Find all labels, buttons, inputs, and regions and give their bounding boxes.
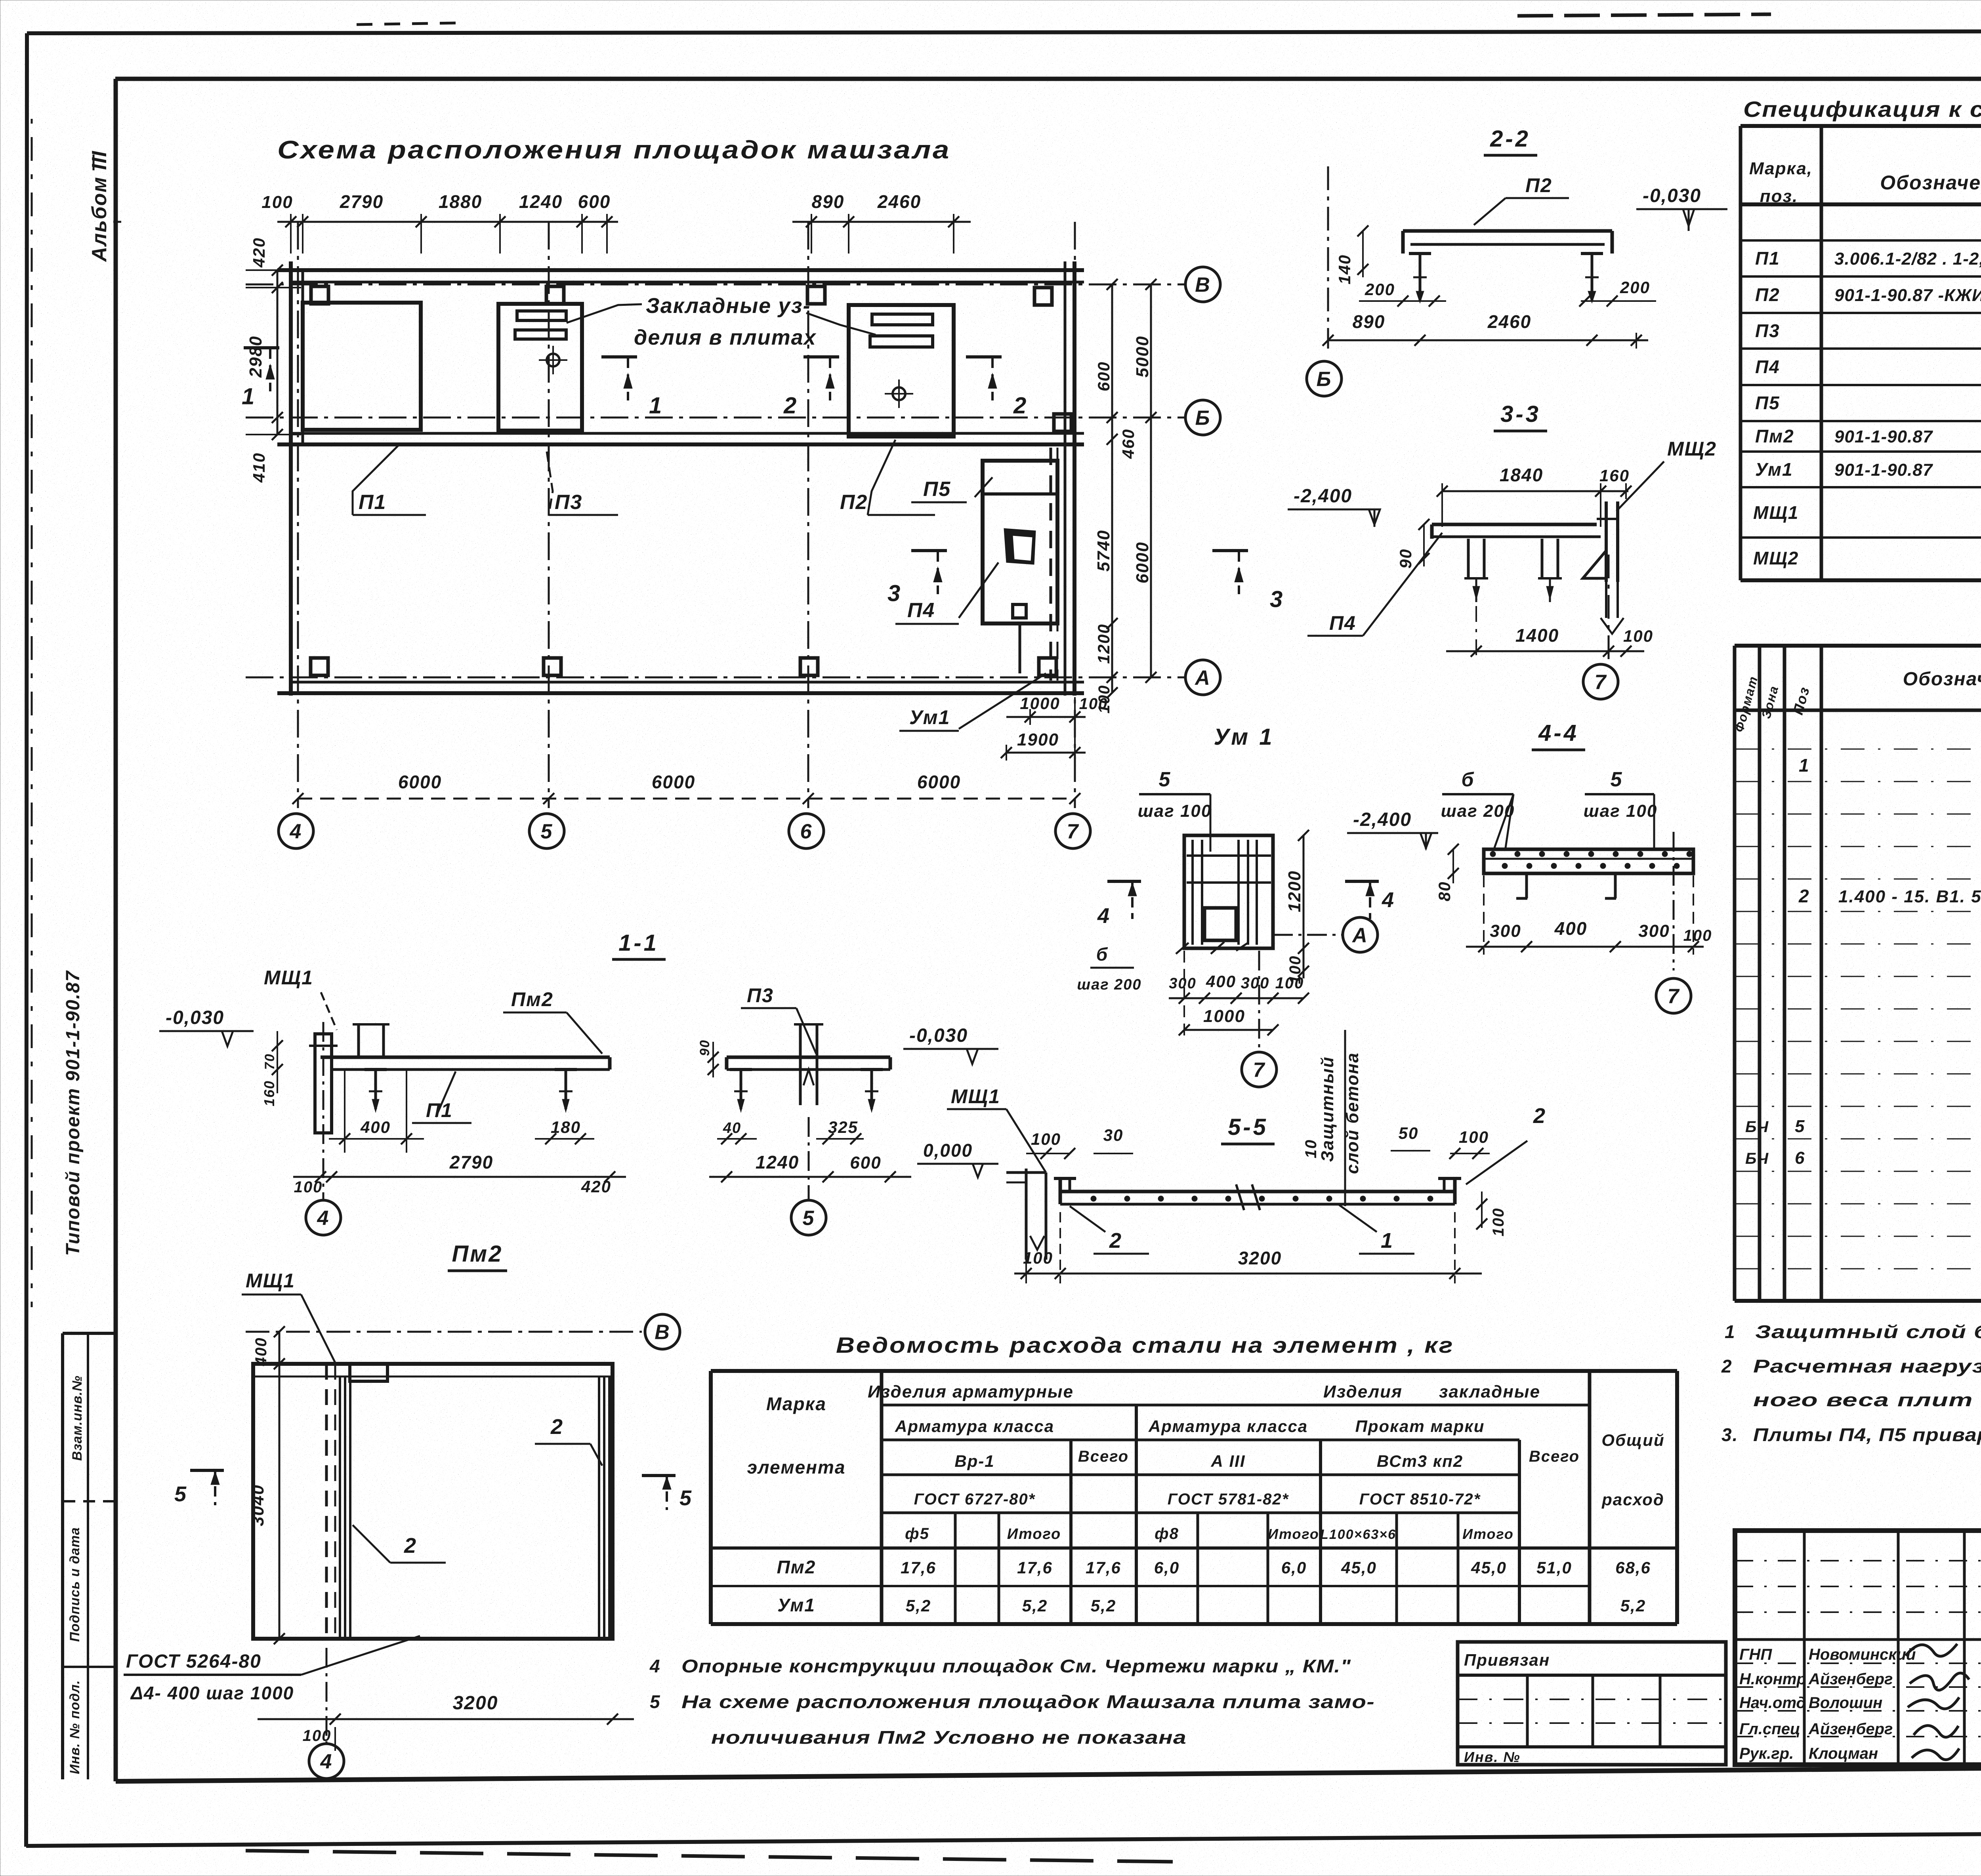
svg-text:901-1-90.87 -КЖИ-П20-3б: 901-1-90.87 -КЖИ-П20-3б xyxy=(1834,286,1981,305)
1-1 I-beams below xyxy=(365,1068,387,1071)
svg-text:5000: 5000 xyxy=(1133,336,1152,377)
svg-text:МЩ1: МЩ1 xyxy=(246,1270,295,1292)
svg-text:100: 100 xyxy=(261,193,293,212)
svg-text:5: 5 xyxy=(541,820,553,843)
Um1 right dims xyxy=(1303,835,1305,948)
svg-text:3: 3 xyxy=(887,581,901,606)
svg-text:1000: 1000 xyxy=(1020,694,1060,713)
Um1 section marks 4 xyxy=(1107,880,1141,883)
svg-text:1: 1 xyxy=(649,393,662,419)
margin stamp column box xyxy=(63,1332,116,1335)
materials table outline xyxy=(1735,644,1981,648)
svg-text:6,0: 6,0 xyxy=(1154,1558,1179,1577)
svg-text:6000: 6000 xyxy=(917,772,961,792)
svg-text:2: 2 xyxy=(404,1534,417,1558)
Um1 corner hatches xyxy=(1176,943,1189,954)
2-2 axis circle B xyxy=(1307,361,1342,396)
svg-text:шаг 100: шаг 100 xyxy=(1138,801,1212,821)
P2 embed slots xyxy=(872,314,933,325)
svg-text:90: 90 xyxy=(697,1039,712,1056)
svg-text:В: В xyxy=(655,1321,670,1344)
svg-text:П3: П3 xyxy=(1755,320,1780,341)
1-1b bottom dim xyxy=(709,1176,911,1178)
svg-text:600: 600 xyxy=(1094,361,1113,391)
svg-text:5: 5 xyxy=(1795,1117,1805,1136)
svg-text:Δ4- 400 шаг 1000: Δ4- 400 шаг 1000 xyxy=(130,1683,294,1703)
svg-text:шаг 200: шаг 200 xyxy=(1077,976,1141,993)
svg-text:90: 90 xyxy=(1396,549,1415,569)
svg-text:400: 400 xyxy=(1554,918,1588,939)
svg-text:делия в плитах: делия в плитах xyxy=(634,326,817,349)
svg-text:Айзенберг: Айзенберг xyxy=(1808,1720,1893,1738)
axis line V xyxy=(246,284,1185,286)
svg-text:П1: П1 xyxy=(1755,248,1780,269)
4-4 axis circle 7 xyxy=(1673,832,1675,970)
svg-text:Вр-1: Вр-1 xyxy=(954,1452,994,1470)
Um1 leader+label xyxy=(959,673,1046,729)
svg-text:Арматура класса: Арматура класса xyxy=(1148,1417,1308,1436)
Um1 rebars xyxy=(1191,840,1194,945)
svg-text:П5: П5 xyxy=(923,478,951,501)
Pm2 plate outline xyxy=(253,1364,613,1639)
P3 center mark xyxy=(547,354,559,366)
section flags 3 xyxy=(911,549,947,552)
svg-text:140: 140 xyxy=(1335,254,1354,284)
P4 small square xyxy=(1013,604,1026,618)
Um1 inner opening xyxy=(1204,908,1236,940)
3-3 top dims xyxy=(1442,490,1628,492)
svg-text:П1: П1 xyxy=(359,491,386,514)
svg-text:2460: 2460 xyxy=(1487,311,1531,332)
svg-text:50: 50 xyxy=(1399,1124,1419,1142)
1-1 P1 label xyxy=(436,1071,456,1117)
svg-text:460: 460 xyxy=(1119,429,1137,459)
svg-text:68,6: 68,6 xyxy=(1615,1558,1651,1577)
svg-text:17,6: 17,6 xyxy=(901,1558,936,1577)
svg-text:Ум1: Ум1 xyxy=(1755,459,1793,480)
svg-text:400: 400 xyxy=(252,1337,270,1367)
svg-text:П3: П3 xyxy=(747,984,774,1007)
svg-text:П4: П4 xyxy=(1755,357,1780,377)
4-4 studs xyxy=(1525,873,1528,898)
top dim line P1-P3 xyxy=(277,221,618,223)
svg-text:5: 5 xyxy=(650,1691,661,1712)
P3 leader+label xyxy=(547,452,553,515)
svg-text:100: 100 xyxy=(1459,1128,1489,1146)
svg-text:200: 200 xyxy=(1620,278,1650,297)
Pm2 left rebar band xyxy=(339,1376,341,1639)
P3 embed slots xyxy=(517,311,566,320)
svg-text:80: 80 xyxy=(1435,881,1454,902)
svg-text:ного веса плит - 20,0 кН/: ного веса плит - 20,0 кН/м² ( 2,0 тс/м²) xyxy=(1753,1390,1981,1410)
svg-text:2790: 2790 xyxy=(449,1152,493,1172)
Pm2 axis V line xyxy=(246,1331,642,1333)
1-1b plate xyxy=(727,1056,890,1059)
svg-text:1: 1 xyxy=(242,384,255,410)
materials table row separators xyxy=(1735,749,1981,750)
1-1 axis circle 4 xyxy=(323,1022,324,1200)
svg-text:5: 5 xyxy=(679,1486,692,1510)
2-2 P2 label xyxy=(1474,198,1506,225)
svg-text:420: 420 xyxy=(581,1177,611,1196)
svg-text:2: 2 xyxy=(1798,886,1810,906)
plate P2 xyxy=(849,305,954,437)
Um1 axis circle 7 xyxy=(1258,951,1260,1050)
svg-text:Гл.спец: Гл.спец xyxy=(1739,1720,1800,1738)
title block signature columns xyxy=(1803,1531,1806,1765)
svg-text:Марка,: Марка, xyxy=(1749,159,1813,178)
svg-text:4: 4 xyxy=(317,1207,330,1230)
svg-text:Защитный: Защитный xyxy=(1318,1056,1337,1162)
svg-text:П2: П2 xyxy=(1755,284,1780,305)
right dims of plan xyxy=(1111,284,1113,693)
svg-text:4: 4 xyxy=(649,1656,661,1676)
svg-text:1400: 1400 xyxy=(1515,625,1559,646)
svg-text:Взам.инв.№: Взам.инв.№ xyxy=(70,1375,85,1461)
4-4 left dim 80 xyxy=(1452,849,1454,883)
svg-text:17,6: 17,6 xyxy=(1017,1558,1053,1577)
svg-text:160: 160 xyxy=(1599,466,1630,485)
svg-text:4: 4 xyxy=(290,820,302,843)
5-5 rebar dots xyxy=(1091,1196,1096,1201)
svg-text:1240: 1240 xyxy=(756,1152,799,1172)
P4 opening xyxy=(1004,528,1036,564)
svg-text:2: 2 xyxy=(1109,1229,1122,1253)
5-5 right dim 100 xyxy=(1481,1192,1483,1228)
svg-text:закладные: закладные xyxy=(1439,1382,1540,1401)
svg-text:1: 1 xyxy=(1725,1321,1736,1342)
svg-text:45,0: 45,0 xyxy=(1471,1558,1507,1577)
svg-text:100: 100 xyxy=(1023,1249,1053,1267)
1-1b central column through plate xyxy=(799,1024,802,1105)
svg-text:1240: 1240 xyxy=(519,191,563,212)
svg-text:L100×63×6: L100×63×6 xyxy=(1320,1527,1396,1542)
svg-text:ГОСТ 5781-82*: ГОСТ 5781-82* xyxy=(1168,1491,1289,1508)
4-4 rebar dots xyxy=(1490,851,1496,857)
1-1 left dims 70/160 xyxy=(277,1031,278,1093)
svg-text:Пм2: Пм2 xyxy=(1755,426,1794,446)
svg-text:300: 300 xyxy=(1169,975,1196,992)
1-1 left column xyxy=(315,1034,332,1133)
svg-text:Итого: Итого xyxy=(1462,1526,1514,1542)
svg-text:4-4: 4-4 xyxy=(1538,720,1579,746)
svg-text:А III: А III xyxy=(1210,1452,1245,1470)
svg-text:300: 300 xyxy=(1241,974,1270,992)
svg-text:400: 400 xyxy=(360,1118,391,1136)
columns xyxy=(311,286,328,304)
1-1b I-beams below xyxy=(730,1068,752,1071)
svg-text:На схеме расположения пло: На схеме расположения площадок Машзала п… xyxy=(681,1691,1375,1712)
svg-text:-2,400: -2,400 xyxy=(1294,486,1352,507)
privyazan stamp table xyxy=(1458,1642,1726,1765)
embeds callout leaders xyxy=(567,304,642,323)
svg-text:Н.контр: Н.контр xyxy=(1739,1670,1806,1688)
svg-text:Новоминский: Новоминский xyxy=(1809,1646,1916,1663)
svg-text:Итого: Итого xyxy=(1007,1526,1061,1542)
svg-text:Клоцман: Клоцман xyxy=(1809,1745,1878,1762)
svg-text:Обозначение: Обозначение xyxy=(1903,669,1981,690)
svg-text:элемента: элемента xyxy=(747,1457,846,1478)
svg-text:400: 400 xyxy=(1206,972,1236,991)
svg-text:МЩ1: МЩ1 xyxy=(264,967,313,989)
svg-text:Типовой проект 901-1-90.87: Типовой проект 901-1-90.87 xyxy=(63,970,84,1256)
svg-text:Ведомость расхода стали: Ведомость расхода стали на элемент , кг xyxy=(836,1333,1454,1357)
svg-text:2-2: 2-2 xyxy=(1490,126,1531,152)
svg-text:Всего: Всего xyxy=(1078,1448,1129,1465)
svg-text:Ум1: Ум1 xyxy=(909,706,950,728)
svg-text:2: 2 xyxy=(1721,1356,1733,1376)
Pm2 left dims xyxy=(279,1332,281,1639)
section flags 2 xyxy=(803,355,839,358)
svg-text:10: 10 xyxy=(1302,1139,1320,1159)
svg-text:П5: П5 xyxy=(1755,393,1780,413)
svg-text:7: 7 xyxy=(1595,671,1607,694)
margin dash line xyxy=(31,119,33,1307)
svg-text:5: 5 xyxy=(1159,768,1171,791)
Um1 bottom dims xyxy=(1006,716,1086,718)
svg-text:Изделия арматурные: Изделия арматурные xyxy=(868,1382,1074,1401)
svg-text:6,0: 6,0 xyxy=(1281,1558,1307,1577)
svg-text:3.: 3. xyxy=(1721,1424,1738,1445)
steel table grid xyxy=(711,1369,1677,1373)
svg-text:6: 6 xyxy=(800,820,813,843)
svg-text:17,6: 17,6 xyxy=(1086,1558,1121,1577)
svg-text:Ум1: Ум1 xyxy=(777,1595,815,1615)
svg-text:3: 3 xyxy=(1270,587,1283,612)
svg-text:3.006.1-2/82 . 1-2,0-58: 3.006.1-2/82 . 1-2,0-58 xyxy=(1834,249,1981,269)
svg-text:200: 200 xyxy=(1365,280,1395,299)
svg-text:5,2: 5,2 xyxy=(1620,1596,1646,1615)
svg-text:Закладные уз-: Закладные уз- xyxy=(646,294,811,318)
svg-text:4: 4 xyxy=(1382,888,1395,912)
P2 center mark xyxy=(893,387,905,400)
svg-text:1.400 - 15. В1. 540 - 01: 1.400 - 15. В1. 540 - 01 xyxy=(1838,887,1981,906)
svg-text:Пм2: Пм2 xyxy=(452,1241,503,1267)
svg-text:Спецификация к схеме распо: Спецификация к схеме расположения площад… xyxy=(1743,97,1981,122)
svg-text:П4: П4 xyxy=(907,599,935,622)
plan building walls xyxy=(277,268,1084,272)
svg-text:45,0: 45,0 xyxy=(1341,1558,1377,1577)
axis circle V xyxy=(1185,267,1220,302)
svg-text:2: 2 xyxy=(550,1415,563,1439)
svg-text:расход: расход xyxy=(1601,1490,1664,1509)
svg-text:100: 100 xyxy=(1623,627,1653,645)
svg-text:890: 890 xyxy=(1353,311,1386,332)
svg-text:2460: 2460 xyxy=(877,191,921,212)
svg-text:ГНП: ГНП xyxy=(1739,1646,1772,1663)
P2 leader+label xyxy=(868,440,895,515)
svg-text:100: 100 xyxy=(1079,695,1108,713)
svg-text:ноличивания Пм2 Условно: ноличивания Пм2 Условно не показана xyxy=(711,1727,1187,1748)
svg-text:-0,030: -0,030 xyxy=(1643,185,1701,206)
svg-text:Альбом III: Альбом III xyxy=(88,151,111,263)
svg-text:поз.: поз. xyxy=(1760,187,1798,206)
1-1 stand above plate xyxy=(357,1024,360,1057)
svg-text:ГОСТ 8510-72*: ГОСТ 8510-72* xyxy=(1359,1491,1481,1508)
svg-text:100: 100 xyxy=(1683,927,1712,944)
svg-text:МЩ1: МЩ1 xyxy=(951,1085,1000,1108)
svg-text:Марка: Марка xyxy=(766,1394,826,1414)
svg-text:100: 100 xyxy=(1031,1130,1061,1148)
svg-text:1200: 1200 xyxy=(1094,623,1113,663)
Um1 bottom dims xyxy=(1169,997,1303,999)
svg-text:5,2: 5,2 xyxy=(1091,1596,1116,1615)
P4 stem line xyxy=(1019,623,1021,673)
bottom span dim line xyxy=(298,798,1075,800)
svg-text:51,0: 51,0 xyxy=(1536,1558,1572,1577)
svg-text:Инв. № подл.: Инв. № подл. xyxy=(67,1680,82,1774)
svg-text:МЩ2: МЩ2 xyxy=(1667,438,1717,460)
svg-text:Волошин: Волошин xyxy=(1809,1694,1882,1712)
svg-text:Итого: Итого xyxy=(1268,1526,1319,1542)
svg-text:Арматура класса: Арматура класса xyxy=(895,1417,1054,1436)
svg-text:шаг 100: шаг 100 xyxy=(1584,801,1658,821)
svg-text:ф8: ф8 xyxy=(1155,1525,1179,1542)
left dims of plan xyxy=(277,270,279,435)
Pm2 top notch xyxy=(350,1364,387,1381)
monolith strip Um1 dashed xyxy=(1050,448,1052,681)
svg-text:Всего: Всего xyxy=(1529,1448,1580,1465)
3-3 axis circle 7 xyxy=(1608,555,1610,665)
svg-text:МЩ1: МЩ1 xyxy=(1753,502,1799,523)
svg-text:П1: П1 xyxy=(426,1099,453,1121)
svg-text:ГОСТ 6727-80*: ГОСТ 6727-80* xyxy=(914,1491,1036,1508)
svg-text:Схема расположения площ: Схема расположения площадок машзала xyxy=(277,135,951,164)
svg-text:Расчетная нагрузка на пл: Расчетная нагрузка на площадки без учета… xyxy=(1753,1356,1981,1376)
svg-text:А: А xyxy=(1194,667,1211,690)
svg-text:4: 4 xyxy=(320,1750,333,1773)
2-2 plate xyxy=(1403,229,1612,233)
svg-text:БЧ: БЧ xyxy=(1745,1150,1769,1167)
svg-text:ф5: ф5 xyxy=(905,1525,929,1542)
1-1 dims 400/180 xyxy=(344,1070,345,1153)
axis circle B xyxy=(1185,400,1220,435)
P4 leader+label xyxy=(959,562,998,618)
svg-text:Общий: Общий xyxy=(1601,1431,1664,1449)
svg-text:П4: П4 xyxy=(1329,612,1356,634)
svg-text:1900: 1900 xyxy=(1017,730,1059,749)
svg-text:6000: 6000 xyxy=(398,772,442,792)
3-3 studs xyxy=(1467,539,1470,578)
1-1 bottom dim xyxy=(293,1176,626,1178)
axis circle A xyxy=(1185,660,1220,695)
svg-text:3200: 3200 xyxy=(453,1693,498,1714)
title block main box xyxy=(1735,1531,1981,1765)
svg-text:7: 7 xyxy=(1253,1059,1265,1082)
svg-text:Нач.отд: Нач.отд xyxy=(1739,1694,1806,1712)
svg-text:ВСт3 кп2: ВСт3 кп2 xyxy=(1377,1452,1463,1470)
plate P1 xyxy=(303,303,421,430)
svg-text:5: 5 xyxy=(1611,768,1623,791)
svg-text:б: б xyxy=(1096,944,1108,965)
4-4 plate xyxy=(1484,849,1693,873)
svg-text:6000: 6000 xyxy=(652,772,695,792)
sheet outer border xyxy=(27,31,1981,33)
svg-text:ГОСТ 5264-80: ГОСТ 5264-80 xyxy=(126,1651,261,1672)
svg-text:7: 7 xyxy=(1067,820,1079,843)
svg-text:5: 5 xyxy=(174,1482,187,1506)
2-2 I-beams xyxy=(1409,252,1431,255)
svg-text:2: 2 xyxy=(1533,1104,1546,1128)
svg-text:2: 2 xyxy=(1013,393,1027,419)
Um1 outer square xyxy=(1184,835,1273,948)
svg-text:0,000: 0,000 xyxy=(923,1140,973,1161)
spec table grid xyxy=(1741,124,1981,128)
3-3 bottom dims xyxy=(1446,650,1644,652)
svg-text:7: 7 xyxy=(1668,985,1680,1008)
svg-text:-0,030: -0,030 xyxy=(909,1025,968,1046)
svg-text:1200: 1200 xyxy=(1285,870,1304,912)
1-1b dim 90 xyxy=(712,1042,714,1077)
P5 leader+label xyxy=(975,477,992,497)
svg-text:600: 600 xyxy=(578,191,611,212)
svg-text:3200: 3200 xyxy=(1238,1248,1282,1268)
svg-text:1-1: 1-1 xyxy=(618,930,659,956)
svg-text:1880: 1880 xyxy=(439,191,482,212)
svg-text:70: 70 xyxy=(262,1053,277,1070)
2-2 axis line xyxy=(1327,166,1329,349)
svg-text:Плиты П4, П5 приварить к: Плиты П4, П5 приварить к металлическим б… xyxy=(1753,1424,1981,1445)
svg-text:1: 1 xyxy=(1381,1229,1393,1253)
svg-text:1: 1 xyxy=(1799,755,1810,776)
svg-text:1840: 1840 xyxy=(1500,465,1543,485)
P1 leader+label xyxy=(353,444,400,515)
section flags 1 xyxy=(244,346,279,349)
svg-text:Подпись и дата: Подпись и дата xyxy=(67,1527,82,1642)
svg-text:4: 4 xyxy=(1097,904,1110,928)
svg-text:160: 160 xyxy=(261,1080,277,1106)
5-5 bottom dims xyxy=(1014,1273,1482,1275)
axis line B xyxy=(246,417,1185,419)
Pm2 bottom dims xyxy=(258,1718,634,1720)
svg-text:Прокат марки: Прокат марки xyxy=(1355,1417,1485,1436)
inner drawing frame xyxy=(115,77,1981,81)
signature rows xyxy=(1735,1560,1981,1561)
svg-text:300: 300 xyxy=(1638,921,1670,941)
svg-text:Рук.гр.: Рук.гр. xyxy=(1739,1745,1794,1762)
svg-text:6000: 6000 xyxy=(1133,541,1152,583)
3-3 plate xyxy=(1432,523,1597,526)
svg-text:5: 5 xyxy=(803,1207,815,1230)
5-5 long plate xyxy=(1060,1190,1455,1193)
plate P5/P4 block xyxy=(983,461,1057,623)
svg-text:Изделия: Изделия xyxy=(1323,1382,1403,1401)
svg-text:Б: Б xyxy=(1317,368,1332,391)
svg-text:5740: 5740 xyxy=(1094,530,1113,572)
svg-text:МЩ2: МЩ2 xyxy=(1753,548,1799,568)
Pm2 left monolith dashed strip xyxy=(325,1364,328,1639)
scan noise marks top xyxy=(357,23,456,25)
svg-text:2790: 2790 xyxy=(340,191,384,212)
top dim line P2 xyxy=(792,221,971,223)
vertical axes 4..7 xyxy=(297,222,299,808)
1-1 plate beam xyxy=(321,1056,610,1059)
svg-text:П2: П2 xyxy=(840,491,868,514)
svg-text:А: А xyxy=(1351,924,1368,947)
Um1 axis A line + circle xyxy=(1273,934,1343,936)
svg-text:3-3: 3-3 xyxy=(1500,401,1541,427)
5-5 left support wall xyxy=(1025,1169,1028,1260)
svg-text:1000: 1000 xyxy=(1203,1007,1245,1026)
Pm2 section marks 5 xyxy=(190,1469,224,1472)
Pm2 right rebar band xyxy=(598,1376,600,1639)
3-3 right plate MSh2 xyxy=(1605,501,1608,582)
plate P3 xyxy=(498,304,582,431)
svg-text:Пм2: Пм2 xyxy=(777,1557,816,1577)
svg-text:Айзенберг: Айзенберг xyxy=(1808,1670,1893,1688)
svg-text:П2: П2 xyxy=(1525,174,1552,196)
svg-text:5,2: 5,2 xyxy=(1022,1596,1048,1615)
